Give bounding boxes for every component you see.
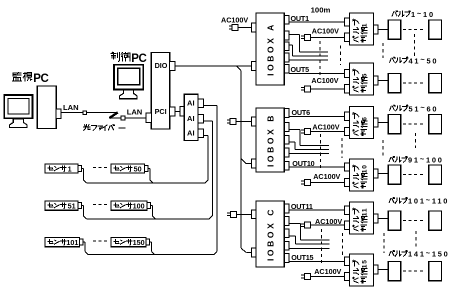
svg-text:100m: 100m	[311, 6, 331, 15]
svg-text:AC100V: AC100V	[312, 122, 339, 131]
svg-text:IOBOX B: IOBOX B	[265, 113, 275, 167]
svg-text:OUT5: OUT5	[291, 65, 310, 74]
svg-text:IOBOX A: IOBOX A	[265, 22, 275, 76]
svg-text:PCI: PCI	[155, 107, 167, 116]
svg-text:15: 15	[361, 259, 368, 268]
svg-text:AI: AI	[187, 99, 195, 108]
svg-text:1: 1	[361, 23, 368, 27]
svg-text:6: 6	[361, 116, 368, 120]
svg-text:PC: PC	[131, 53, 146, 65]
svg-text:51: 51	[68, 202, 76, 211]
svg-text:101: 101	[66, 238, 78, 247]
svg-text:OUT1: OUT1	[291, 14, 310, 23]
svg-text:AC100V: AC100V	[221, 15, 248, 24]
svg-text:5: 5	[361, 73, 368, 77]
svg-text:1: 1	[68, 165, 72, 174]
svg-text:IOBOX C: IOBOX C	[265, 207, 275, 261]
svg-text:101~110: 101~110	[408, 196, 449, 206]
svg-text:AI: AI	[187, 114, 195, 123]
svg-text:AC100V: AC100V	[314, 267, 341, 276]
svg-text:OUT6: OUT6	[292, 108, 311, 117]
svg-text:91~100: 91~100	[408, 154, 444, 164]
svg-text:150: 150	[133, 238, 145, 247]
svg-text:AC100V: AC100V	[313, 172, 340, 181]
svg-text:141~150: 141~150	[408, 249, 450, 259]
svg-text:41~50: 41~50	[409, 55, 439, 65]
svg-text:LAN: LAN	[63, 103, 79, 112]
svg-text:AI: AI	[187, 129, 195, 138]
svg-text:OUT11: OUT11	[291, 202, 313, 211]
svg-text:51~60: 51~60	[409, 103, 439, 113]
svg-text:10: 10	[361, 164, 368, 173]
svg-text:LAN: LAN	[127, 108, 143, 117]
svg-text:DIO: DIO	[155, 61, 168, 70]
svg-text:AC100V: AC100V	[311, 76, 338, 85]
svg-text:OUT15: OUT15	[291, 253, 313, 262]
svg-text:AC100V: AC100V	[312, 26, 339, 35]
svg-text:100: 100	[133, 202, 145, 211]
svg-text:1~10: 1~10	[411, 9, 435, 19]
svg-text:50: 50	[134, 165, 142, 174]
svg-text:11: 11	[361, 208, 368, 217]
svg-text:AC100V: AC100V	[315, 217, 342, 226]
svg-text:OUT10: OUT10	[292, 159, 314, 168]
svg-text:PC: PC	[33, 73, 48, 85]
